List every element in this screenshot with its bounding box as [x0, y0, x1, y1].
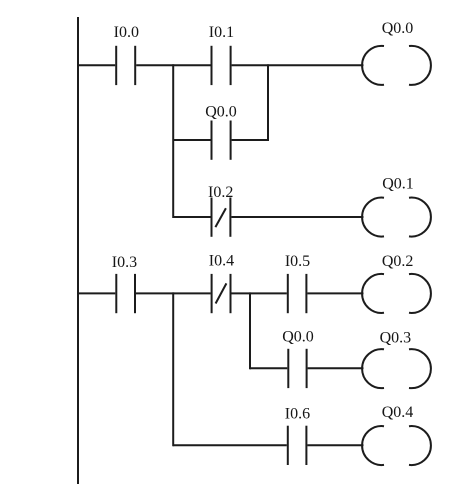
coil Q0.3 [362, 349, 431, 388]
svg-text:Q0.3: Q0.3 [380, 330, 412, 347]
label I0.2 [208, 184, 233, 201]
wire I0.3 to I0.4 [136, 292, 211, 294]
wire contact Q0.0 lower to coil Q0.3 [308, 367, 364, 369]
svg-text:I0.5: I0.5 [285, 253, 310, 270]
label contact Q0.0 parallel [205, 104, 237, 121]
contact Q0.0 lower [288, 349, 306, 388]
svg-text:Q0.2: Q0.2 [382, 253, 414, 270]
coil Q0.2 [362, 274, 431, 313]
coil Q0.1 [362, 198, 431, 237]
wire parallel branch left to contact Q0.0 [173, 139, 210, 141]
label I0.1 [209, 24, 234, 41]
wire branch vertical rung2 middle [249, 292, 251, 369]
contact Q0.0 parallel [212, 121, 231, 160]
svg-text:Q0.0: Q0.0 [282, 328, 314, 345]
label contact Q0.0 lower [282, 328, 314, 345]
wire branch to contact Q0.0 lower [250, 367, 287, 369]
label I0.4 [209, 252, 234, 269]
coil Q0.4 [362, 426, 431, 465]
label I0.5 [285, 253, 310, 270]
contact I0.1 [212, 46, 231, 85]
svg-text:I0.1: I0.1 [209, 24, 234, 41]
wire rung I0.2 left [173, 216, 210, 218]
label coil Q0.0 [382, 20, 414, 37]
contact I0.6 [288, 426, 307, 465]
wire branch vertical rung2 left [172, 292, 174, 446]
wire rung1 rail to I0.0 [78, 64, 115, 66]
wire rung2 rail to I0.3 [78, 292, 115, 294]
svg-text:I0.6: I0.6 [285, 405, 310, 422]
label Q0.2 [382, 253, 414, 270]
contact I0.0 [116, 46, 135, 85]
wire I0.1 to coil Q0.0 [232, 64, 364, 66]
label I0.6 [285, 405, 310, 422]
label I0.0 [114, 24, 139, 41]
wire I0.4 to I0.5 [232, 292, 287, 294]
wire branch vertical left rung1 [172, 64, 174, 218]
wire branch vertical right rung1 [267, 64, 269, 141]
label Q0.1 [382, 176, 414, 193]
svg-text:Q0.1: Q0.1 [382, 176, 414, 193]
svg-text:I0.4: I0.4 [209, 252, 234, 269]
contact I0.2 normally closed [212, 198, 231, 237]
label Q0.3 [380, 330, 412, 347]
svg-text:Q0.4: Q0.4 [382, 404, 414, 421]
wire I0.5 to coil Q0.2 [307, 292, 363, 294]
label I0.3 [112, 254, 137, 271]
wire branch to contact I0.6 [173, 444, 287, 446]
left power rail [77, 17, 79, 484]
svg-text:Q0.0: Q0.0 [382, 20, 414, 37]
label Q0.4 [382, 404, 414, 421]
wire I0.2 to coil Q0.1 [231, 216, 363, 218]
coil Q0.0 [362, 46, 431, 85]
svg-text:I0.0: I0.0 [114, 24, 139, 41]
contact I0.5 [288, 274, 307, 313]
wire I0.0 to I0.1 [136, 64, 210, 66]
contact I0.4 normally closed [212, 274, 231, 313]
svg-text:I0.2: I0.2 [208, 184, 233, 201]
contact I0.3 [116, 274, 135, 313]
wire contact I0.6 to coil Q0.4 [307, 444, 363, 446]
svg-text:I0.3: I0.3 [112, 254, 137, 271]
wire contact Q0.0 to branch right [232, 139, 268, 141]
svg-text:Q0.0: Q0.0 [205, 104, 237, 121]
